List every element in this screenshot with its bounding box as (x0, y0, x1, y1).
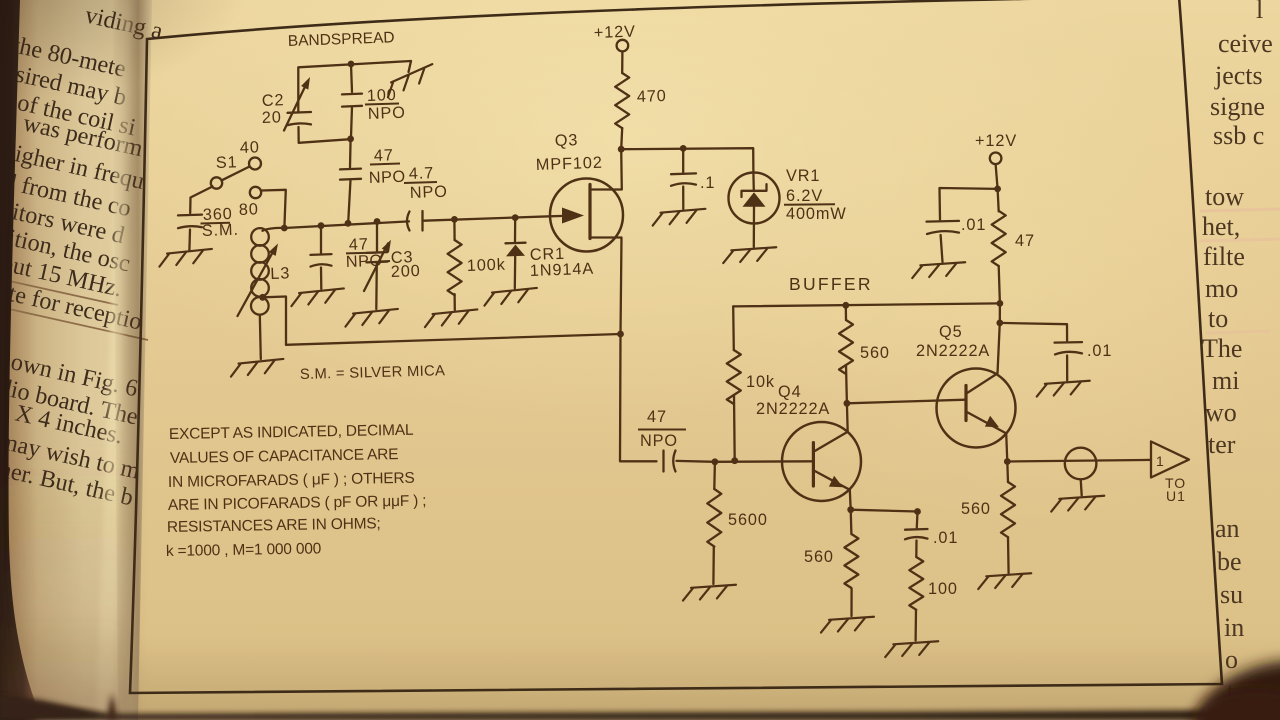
wire coupling cap to NET4 (677, 460, 715, 463)
transistor Q3 MPF102 (JFET) (550, 179, 623, 252)
node junction bandspread chain on NET1 (345, 220, 352, 227)
ground under Q4 emitter 560 (820, 617, 874, 633)
Q3 source stub and lead (590, 238, 622, 335)
node Q4 collector / Q5 base junction (844, 400, 851, 407)
ground under C3 (344, 309, 398, 327)
ground under supply .01 (912, 262, 966, 278)
wire NET3 buffer supply rail (733, 303, 1000, 306)
wire NET1 main oscillator node (left segment) (284, 221, 409, 228)
capacitor 4.7 NPO (series on NET1) (407, 212, 410, 231)
wire from S1 pole to capacitor 360 (190, 187, 212, 214)
switch S1 throw terminal 80 (250, 187, 261, 198)
transistor Q5 2N2222A (937, 369, 1016, 448)
book gutter dark strip (0, 0, 42, 720)
transistor Q4 2N2222A (782, 422, 861, 501)
node L3 tap junction (259, 294, 266, 301)
ground under tank 47 NPO (290, 288, 344, 306)
ground under L3 (230, 359, 284, 377)
node RC junction (914, 508, 921, 515)
wire capacitor 360 to ground (188, 230, 191, 251)
capacitor .01 (Q4 emitter network) (916, 512, 919, 528)
capacitor 47 NPO (tank shunt) (320, 226, 322, 253)
capacitor 100 NPO (351, 64, 352, 92)
faint highlighter underlines (1200, 209, 1280, 211)
node Q5 emitter junction (1004, 458, 1011, 465)
inductor L3 (263, 228, 285, 231)
capacitor 47 NPO (buffer coupling) (662, 451, 664, 472)
node A junction L3 top on NET1 (281, 225, 288, 232)
wire NET1 main oscillator node (right segment to Q3 gate) (424, 216, 550, 220)
node 10k junction on NET4 (731, 457, 738, 464)
crease shadow left of frame (112, 0, 152, 720)
resistor 5600 (713, 462, 716, 489)
capacitor 360 S.M. (178, 213, 202, 216)
ground under 5600 (682, 585, 736, 601)
resistor 100 (909, 557, 923, 610)
left book page (previous page with serif text) (0, 0, 152, 720)
wire Q4 emitter to RC network (851, 510, 918, 512)
capacitor .01 (Q5 collector bypass) (1055, 341, 1083, 344)
L3 variable arrow (238, 249, 275, 316)
node .1 cap junction (680, 145, 687, 152)
wire +12V to resistor 470 (621, 52, 624, 74)
ground under 360 (158, 249, 212, 267)
node NET2 meets Q3 source (617, 331, 624, 338)
ground under 100 (885, 641, 939, 657)
wire Q3 source down to coupling cap (620, 334, 657, 461)
resistor 100k (453, 219, 456, 240)
switch S1 arm (222, 167, 249, 181)
zener diode VR1 6.2V 400mW (729, 173, 780, 224)
wire drain node to VR1 (621, 148, 753, 172)
resistor 470 (615, 73, 629, 128)
+12V terminal (buffer) (990, 153, 1002, 165)
right page text column (1199, 0, 1280, 706)
page curl highlight on left page edge (96, 0, 134, 720)
node junction C3 on NET1 (374, 218, 381, 225)
wire 470 to drain node (621, 128, 622, 149)
highlight sheen top center (80, 0, 1160, 430)
output connector triangle TO U1 (1151, 442, 1189, 478)
bottom-left page shading (0, 0, 1, 1)
node NET3 right end junction (997, 300, 1004, 307)
ground under CR1 (483, 288, 537, 306)
Q3 drain stub and lead (590, 149, 622, 189)
bandspread loop left wire and top rail (298, 61, 411, 112)
resistor 47 (buffer supply) (992, 211, 1006, 266)
capacitor 47 NPO (bandspread series) (349, 139, 352, 168)
node 560 junction on NET3 (842, 302, 849, 309)
top-left corner shade (0, 0, 250, 100)
capacitor C2 20 variable (288, 111, 312, 114)
wire to .01 bypass (buffer supply) (940, 188, 998, 220)
capacitor .01 (buffer supply bypass) (927, 220, 960, 223)
wire output line (1007, 460, 1151, 462)
capacitor C3 200 variable (376, 222, 378, 252)
switch S1 pole terminal (211, 177, 222, 188)
resistor 560 (Q4 emitter) (850, 510, 853, 534)
wire from 80 terminal to node A (261, 190, 286, 227)
switch S1 throw terminal 40 (249, 158, 261, 170)
diode CR1 1N914A (514, 218, 517, 242)
node Q3 drain junction (618, 146, 625, 153)
ground under .1 (652, 209, 706, 226)
node Q5 collector junction (.01 branch) (996, 320, 1003, 327)
ground under Q5 .01 (1036, 381, 1090, 397)
resistor 10k (732, 306, 735, 350)
wire C2 bottom to bandspread bottom rail (299, 127, 351, 143)
wire Q5 collector to +12V branch (999, 266, 1000, 323)
node Q4 emitter junction (847, 506, 854, 513)
node junction 100k on NET1 (451, 216, 458, 223)
node +12V buffer junction (994, 186, 1001, 193)
node 5600 junction on NET4 (712, 458, 719, 465)
wire L3 tap to NET2 (263, 297, 286, 345)
node bandspread top junction (348, 61, 355, 68)
wire NET4 buffer input node (715, 460, 813, 463)
ground under 100k (424, 309, 478, 327)
node bandspread bottom junction (347, 136, 354, 143)
ground under Q5 emitter 560 (978, 573, 1032, 589)
feedthrough capacitor (1065, 448, 1097, 480)
capacitor .1 (682, 148, 684, 172)
wire L3 bottom to ground (260, 315, 261, 359)
wire NET2 bottom rail to Q3 source node (286, 334, 621, 345)
node junction CR1 on NET1 (512, 214, 519, 221)
photo dark edges (0, 660, 1280, 720)
resistor 560 (Q5 emitter) (1006, 462, 1009, 483)
node junction 47NPO on NET1 (318, 222, 325, 229)
wire to .01 bypass (Q5 collector) (1000, 323, 1067, 341)
+12V terminal (oscillator) (617, 40, 629, 52)
wire Q4 collector node to Q5 base (847, 400, 966, 404)
resistor 560 (Q4 collector load) (845, 305, 848, 320)
left page printed text (rotated by page curvature) (0, 1, 166, 511)
chassis ground at bandspread top right (409, 61, 412, 72)
ground under VR1 (723, 247, 777, 263)
ground under feedthrough (1051, 496, 1105, 512)
